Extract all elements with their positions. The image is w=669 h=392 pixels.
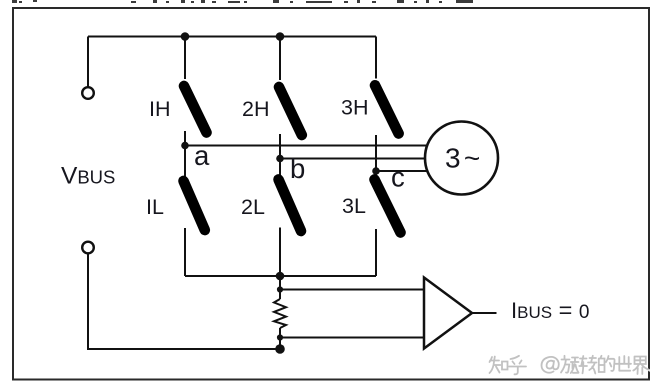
svg-text:b: b [290,153,305,184]
wire: phase 2 high drop [279,37,281,81]
wire: IL bottom stub [184,228,186,276]
junction ground return [275,344,285,354]
wire: comparator top input [280,289,424,291]
wire: phase 1 high drop [184,37,186,80]
wire: 3H lower stub [375,135,377,171]
svg-text:3 ~: 3 ~ [445,143,480,174]
svg-text:IH: IH [149,97,171,121]
node b junction [276,155,284,163]
node a junction [181,142,189,150]
界 [633,357,648,375]
wire: phase 3 low stub from node c [375,171,377,177]
wire: top DC bus [88,36,376,38]
comparator U1 (triangle) [424,278,472,349]
cropped title text remnants (top edge) [12,0,473,3]
svg-text:c: c [391,162,405,193]
wire: 2L bottom stub [279,228,281,277]
svg-text:IBUS = 0: IBUS = 0 [511,297,589,323]
wire: 2H lower stub [279,134,281,159]
wire: phase b to motor [280,158,426,160]
svg-text:VBUS: VBUS [61,163,115,190]
junction comparator plus tap [277,286,283,292]
wire: 3L bottom stub [375,229,377,276]
wire: phase 1 low stub from node a [184,146,186,177]
VBUS positive terminal (open circle) [82,87,94,99]
的 [599,356,615,372]
旋 [561,356,570,373]
switch IL (bar) [184,181,205,230]
junction bottom bus / shunt [276,272,285,281]
switch 3L (bar) [375,180,401,233]
svg-text:a: a [194,140,210,171]
switch 2L (bar) [279,180,302,232]
wire: phase a to motor [185,145,428,147]
知 [490,357,501,374]
wire: shunt top lead [279,276,281,299]
junction on bus, phase 2 [276,32,285,41]
watermark white emboss shadow [491,357,651,376]
motor M (3-phase) circle [425,122,498,195]
wire: comparator bottom input [280,337,424,339]
svg-text:2H: 2H [242,97,269,121]
wire: phase 3 high drop [375,37,377,79]
wire: phase 2 low stub from node b [279,159,281,177]
junction comparator minus tap [277,334,283,340]
wire: shunt bottom lead [279,328,281,349]
switch 2H (bar) [279,87,302,135]
VBUS negative terminal (open circle) [82,242,94,254]
wire: comparator output [472,312,497,314]
转 [579,356,596,374]
svg-text:3H: 3H [341,96,368,120]
乎 [509,356,526,375]
svg-text:3L: 3L [342,194,366,218]
世 [615,356,631,371]
switch IH (bar) [184,86,207,133]
resistor R shunt (zigzag) [274,299,286,328]
watermark zhihu @xuanzhuan de shijie [490,356,649,375]
switch 3H (bar) [375,85,399,133]
wire: return to VBUS negative [88,254,280,349]
svg-text:2L: 2L [241,195,265,219]
@ [542,357,559,373]
wire: bottom return bus [185,275,376,277]
wire: IH lower stub [184,131,186,146]
wire: VBUS positive terminal drop [87,37,89,87]
svg-text:IL: IL [146,195,164,219]
node c junction [372,167,380,175]
wire: phase c to motor [376,170,428,172]
junction on bus, phase 1 [181,32,190,41]
